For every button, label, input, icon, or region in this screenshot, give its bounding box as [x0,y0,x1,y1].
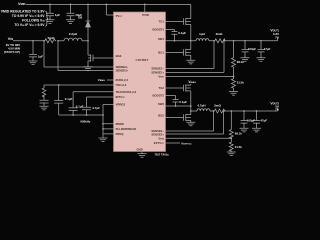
wire Q5 source [190,120,192,122]
svg-text:2.2μH: 2.2μH [69,32,77,36]
wire GND pin [141,152,143,154]
svg-text:MODE: MODE [116,122,125,126]
capacitor CB2 0.1uF boost cap [173,96,179,107]
ground under GND pin [138,154,147,158]
svg-text:1μH: 1μH [199,32,205,36]
capacitor CB1 0.1uF boost cap [172,30,178,41]
wire TG2 [166,87,184,89]
svg-text:(START-UP): (START-UP) [4,50,20,54]
ground under COUT1B [257,58,266,62]
wire Q4 source to SW2 node [190,91,192,111]
svg-text:DB: DB [78,16,82,20]
ground under RB2 [227,152,236,156]
wire SENSE1- [166,41,215,69]
svg-text:0.1μF: 0.1μF [76,104,84,108]
wire VMID top rail [26,3,191,5]
transistor Q4 top MOSFET channel 2 [184,84,191,91]
svg-text:BG1: BG1 [158,51,164,55]
diode DB triangle [86,21,91,27]
ground under COUT2A [240,128,249,132]
wire MODE/PLLIN/FREQ bus [103,105,114,139]
svg-text:SW2: SW2 [158,102,165,106]
wire EXTVCC [166,142,181,144]
transistor Q2 bottom MOSFET channel 1 [184,49,191,56]
capacitor CITH2 0.1uF [54,85,63,115]
capacitor C1 1uF on VMID rail [46,4,54,19]
wire INTVCC [87,96,114,98]
wire BG2 [166,117,184,119]
wire TRACK/SS1,2,3 [73,91,113,93]
wire local ground bus [59,114,103,116]
resistor RS2 3mOhm [214,109,226,113]
svg-text:BOOST1: BOOST1 [152,28,164,32]
wire TG1 [166,21,184,23]
svg-text:GND: GND [137,148,143,152]
svg-text:PLLIN/SPREAD: PLLIN/SPREAD [116,127,137,131]
wire RUN1,2,3 stub to VBIAS [107,79,114,81]
svg-text:BG3: BG3 [116,54,122,58]
svg-text:100μF: 100μF [248,47,256,51]
capacitor C3 1uF at VIN [29,41,37,61]
svg-text:47μF: 47μF [261,118,268,122]
diode DB boost output diode [86,4,91,40]
wire BG1 [166,51,184,53]
wire SENSE3- [44,41,114,67]
resistor RITH compensation [42,85,46,98]
ground under C1 [46,20,55,24]
ground under pin bus [99,138,108,142]
ground under COUT1A [241,58,250,62]
wire SW2 [166,105,191,107]
svg-text:RUN1,2,3: RUN1,2,3 [116,78,129,82]
wire Q1 drain to VMID rail [190,4,192,18]
svg-text:4.7μF: 4.7μF [92,106,100,110]
inductor L3 2.2uH [64,38,82,41]
resistor RB1 21.5k feedback bottom [232,78,236,92]
transistor Q1 top MOSFET channel 1 [184,18,191,25]
svg-text:TO VIN IF VIN > 9.9V: TO VIN IF VIN > 9.9V [14,23,45,27]
capacitor CVCC 4.7uF [82,97,91,115]
wire SENSE1+ [166,41,225,73]
svg-text:SENSE3+: SENSE3+ [116,69,129,73]
wire Q5 drain [190,111,192,115]
svg-text:5mΩ: 5mΩ [48,36,55,40]
wire Q1 source to SW1 [190,24,192,40]
svg-text:LTC7817: LTC7817 [136,58,149,62]
svg-text:SW1: SW1 [158,37,165,41]
capacitor COUT2A 100uF [241,111,248,128]
capacitor CSS 0.1uF [69,92,78,115]
inductor L1 1uH [196,39,209,41]
svg-text:0.1μF: 0.1μF [179,100,187,104]
svg-text:21.5k: 21.5k [237,81,244,85]
svg-text:7817 TA01a: 7817 TA01a [155,152,170,156]
svg-text:21.5k: 21.5k [235,145,242,149]
wire ITH1,2,3 [44,84,114,86]
wire inductor to boost switch node [82,40,88,42]
svg-text:FREQ: FREQ [116,132,125,136]
transistor Q5 bottom MOSFET channel 2 [184,114,191,121]
brace grouping VMID notes [45,11,48,26]
svg-text:3mΩ: 3mΩ [214,104,221,108]
wire VBIAS stub channel 2 [190,84,192,85]
svg-text:600kHz: 600kHz [80,119,91,123]
svg-text:FOLLOWS VIN: FOLLOWS VIN [22,19,45,23]
ground under CITH1 [40,106,49,110]
resistor RA1 68.1k feedback top [232,41,236,78]
svg-text:VPRG3: VPRG3 [116,103,126,107]
wire Q2 drain [190,41,192,50]
wire VIN input line [13,40,44,42]
svg-text:3mΩ: 3mΩ [216,32,223,36]
resistor RB2 21.5k feedback bottom [229,138,233,152]
svg-text:0.1μF: 0.1μF [178,31,186,35]
wire VFB2 [166,137,232,139]
ground under C2 [66,20,75,24]
IC U1 LTC7817 body [114,12,166,152]
svg-text:ITH1,2,3: ITH1,2,3 [116,83,127,87]
svg-text:VMID REGULATED TO 9.9V: VMID REGULATED TO 9.9V [1,10,46,14]
capacitor COUT1A 100uF [242,41,249,58]
resistor RS1 3mOhm [214,39,226,43]
ground under RB1 [229,92,238,96]
svg-text:BOOST2: BOOST2 [152,94,164,98]
wire rail drop to PVIN pin tick [144,4,146,12]
svg-text:68.1k: 68.1k [235,132,242,136]
svg-text:4.7μH: 4.7μH [197,104,205,108]
ground under Q5 [186,122,195,126]
wire VMID to PVCC pin [106,4,113,15]
svg-text:PVIN: PVIN [142,13,149,17]
resistor RS3 5mOhm boost sense [44,39,56,43]
transistor Q3 boost low-side MOSFET [88,41,114,67]
svg-text:47μF: 47μF [264,47,271,51]
ground under Q2 [186,60,195,64]
ground under COUT2B [252,128,261,132]
capacitor CITH1 [40,96,49,107]
wire VFB1 [166,76,234,78]
capacitor COUT2B 47uF [253,111,260,128]
wire BOOST2 [166,95,176,97]
wire Q2 source [190,55,192,60]
wire resistor to inductor [58,40,64,42]
svg-text:68.1k: 68.1k [237,60,244,64]
svg-text:1μF: 1μF [55,13,61,17]
svg-text:100μF: 100μF [247,118,255,122]
wire BOOST1 [166,29,175,31]
capacitor COUT1B 47uF [258,41,265,58]
ground under C3 [29,61,38,65]
inductor L2 4.7uH [197,109,210,111]
capacitor C2 10uF on VMID rail [67,4,75,19]
svg-text:TO 9.9V IF VIN < 9.9V: TO 9.9V IF VIN < 9.9V [12,14,45,18]
svg-text:BG2: BG2 [158,114,164,118]
wire SENSE3+ [58,41,114,71]
svg-text:TG1: TG1 [159,20,165,24]
wire VPRG3 [103,104,114,106]
wire SENSE2+ [166,111,224,134]
svg-text:0.1μF: 0.1μF [65,97,73,101]
wire SENSE2- [166,111,214,131]
resistor RA2 68.1k feedback top [229,111,233,139]
wire SW1 / channel 1 output line [166,38,278,41]
svg-text:TG2: TG2 [159,86,165,90]
svg-text:1μF: 1μF [38,55,44,59]
svg-text:TRACK/SS1,2,3: TRACK/SS1,2,3 [116,90,137,94]
ground under Q3 [84,67,93,71]
wire channel 2 output line [191,108,278,111]
